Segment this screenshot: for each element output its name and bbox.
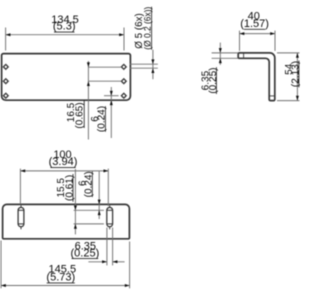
svg-text:(0.24): (0.24): [84, 171, 95, 197]
dim dia 5 (6x): [130, 7, 158, 80]
dim 100 (3.94): [20, 149, 108, 206]
dim 145.5 (5.73): [1, 241, 130, 289]
hole H3 (left col, row 3): [3, 93, 9, 99]
view 1: front face plate: [2, 54, 131, 101]
view 2: L profile: [238, 53, 275, 101]
dim 6 (0.24) top view: [90, 87, 119, 138]
dim 54 (2.13): [277, 53, 301, 101]
svg-text:(0.25): (0.25): [71, 247, 100, 259]
dim 15.5 (0.61): [56, 169, 104, 234]
dim 40 (1.57): [240, 10, 276, 51]
dim 134.5 (5.3): [6, 14, 124, 51]
L end-face line bottom: [269, 95, 274, 97]
hole H5 (right col, row 2): [121, 78, 127, 84]
svg-text:(1.57): (1.57): [240, 18, 269, 30]
slot S2 (right): [107, 205, 113, 229]
hole H6 (right col, row 3): [121, 93, 127, 99]
svg-text:(5.73): (5.73): [46, 271, 75, 283]
dim 16.5 (0.65): [66, 61, 121, 140]
view 3: top flange plate: [3, 204, 130, 238]
dim 6.35 (0.25) L view: [201, 43, 239, 94]
hole H1 (left col, row 1): [3, 64, 9, 70]
svg-text:(Ø 0.2 (6x)): (Ø 0.2 (6x)): [143, 7, 153, 50]
L end-face line left: [243, 53, 245, 58]
svg-text:(5.3): (5.3): [53, 21, 76, 33]
hole H4 (right col, row 1): [121, 64, 127, 70]
svg-text:(0.25): (0.25): [208, 68, 219, 94]
slot S1 (left): [18, 205, 24, 229]
svg-text:(0.61): (0.61): [64, 175, 75, 201]
dim 6.35 (0.25) bottom view: [71, 228, 125, 266]
hole H2 (left col, row 2): [3, 78, 9, 84]
dim 6 (0.24) bottom view: [77, 171, 100, 219]
svg-text:(3.94): (3.94): [49, 156, 78, 168]
